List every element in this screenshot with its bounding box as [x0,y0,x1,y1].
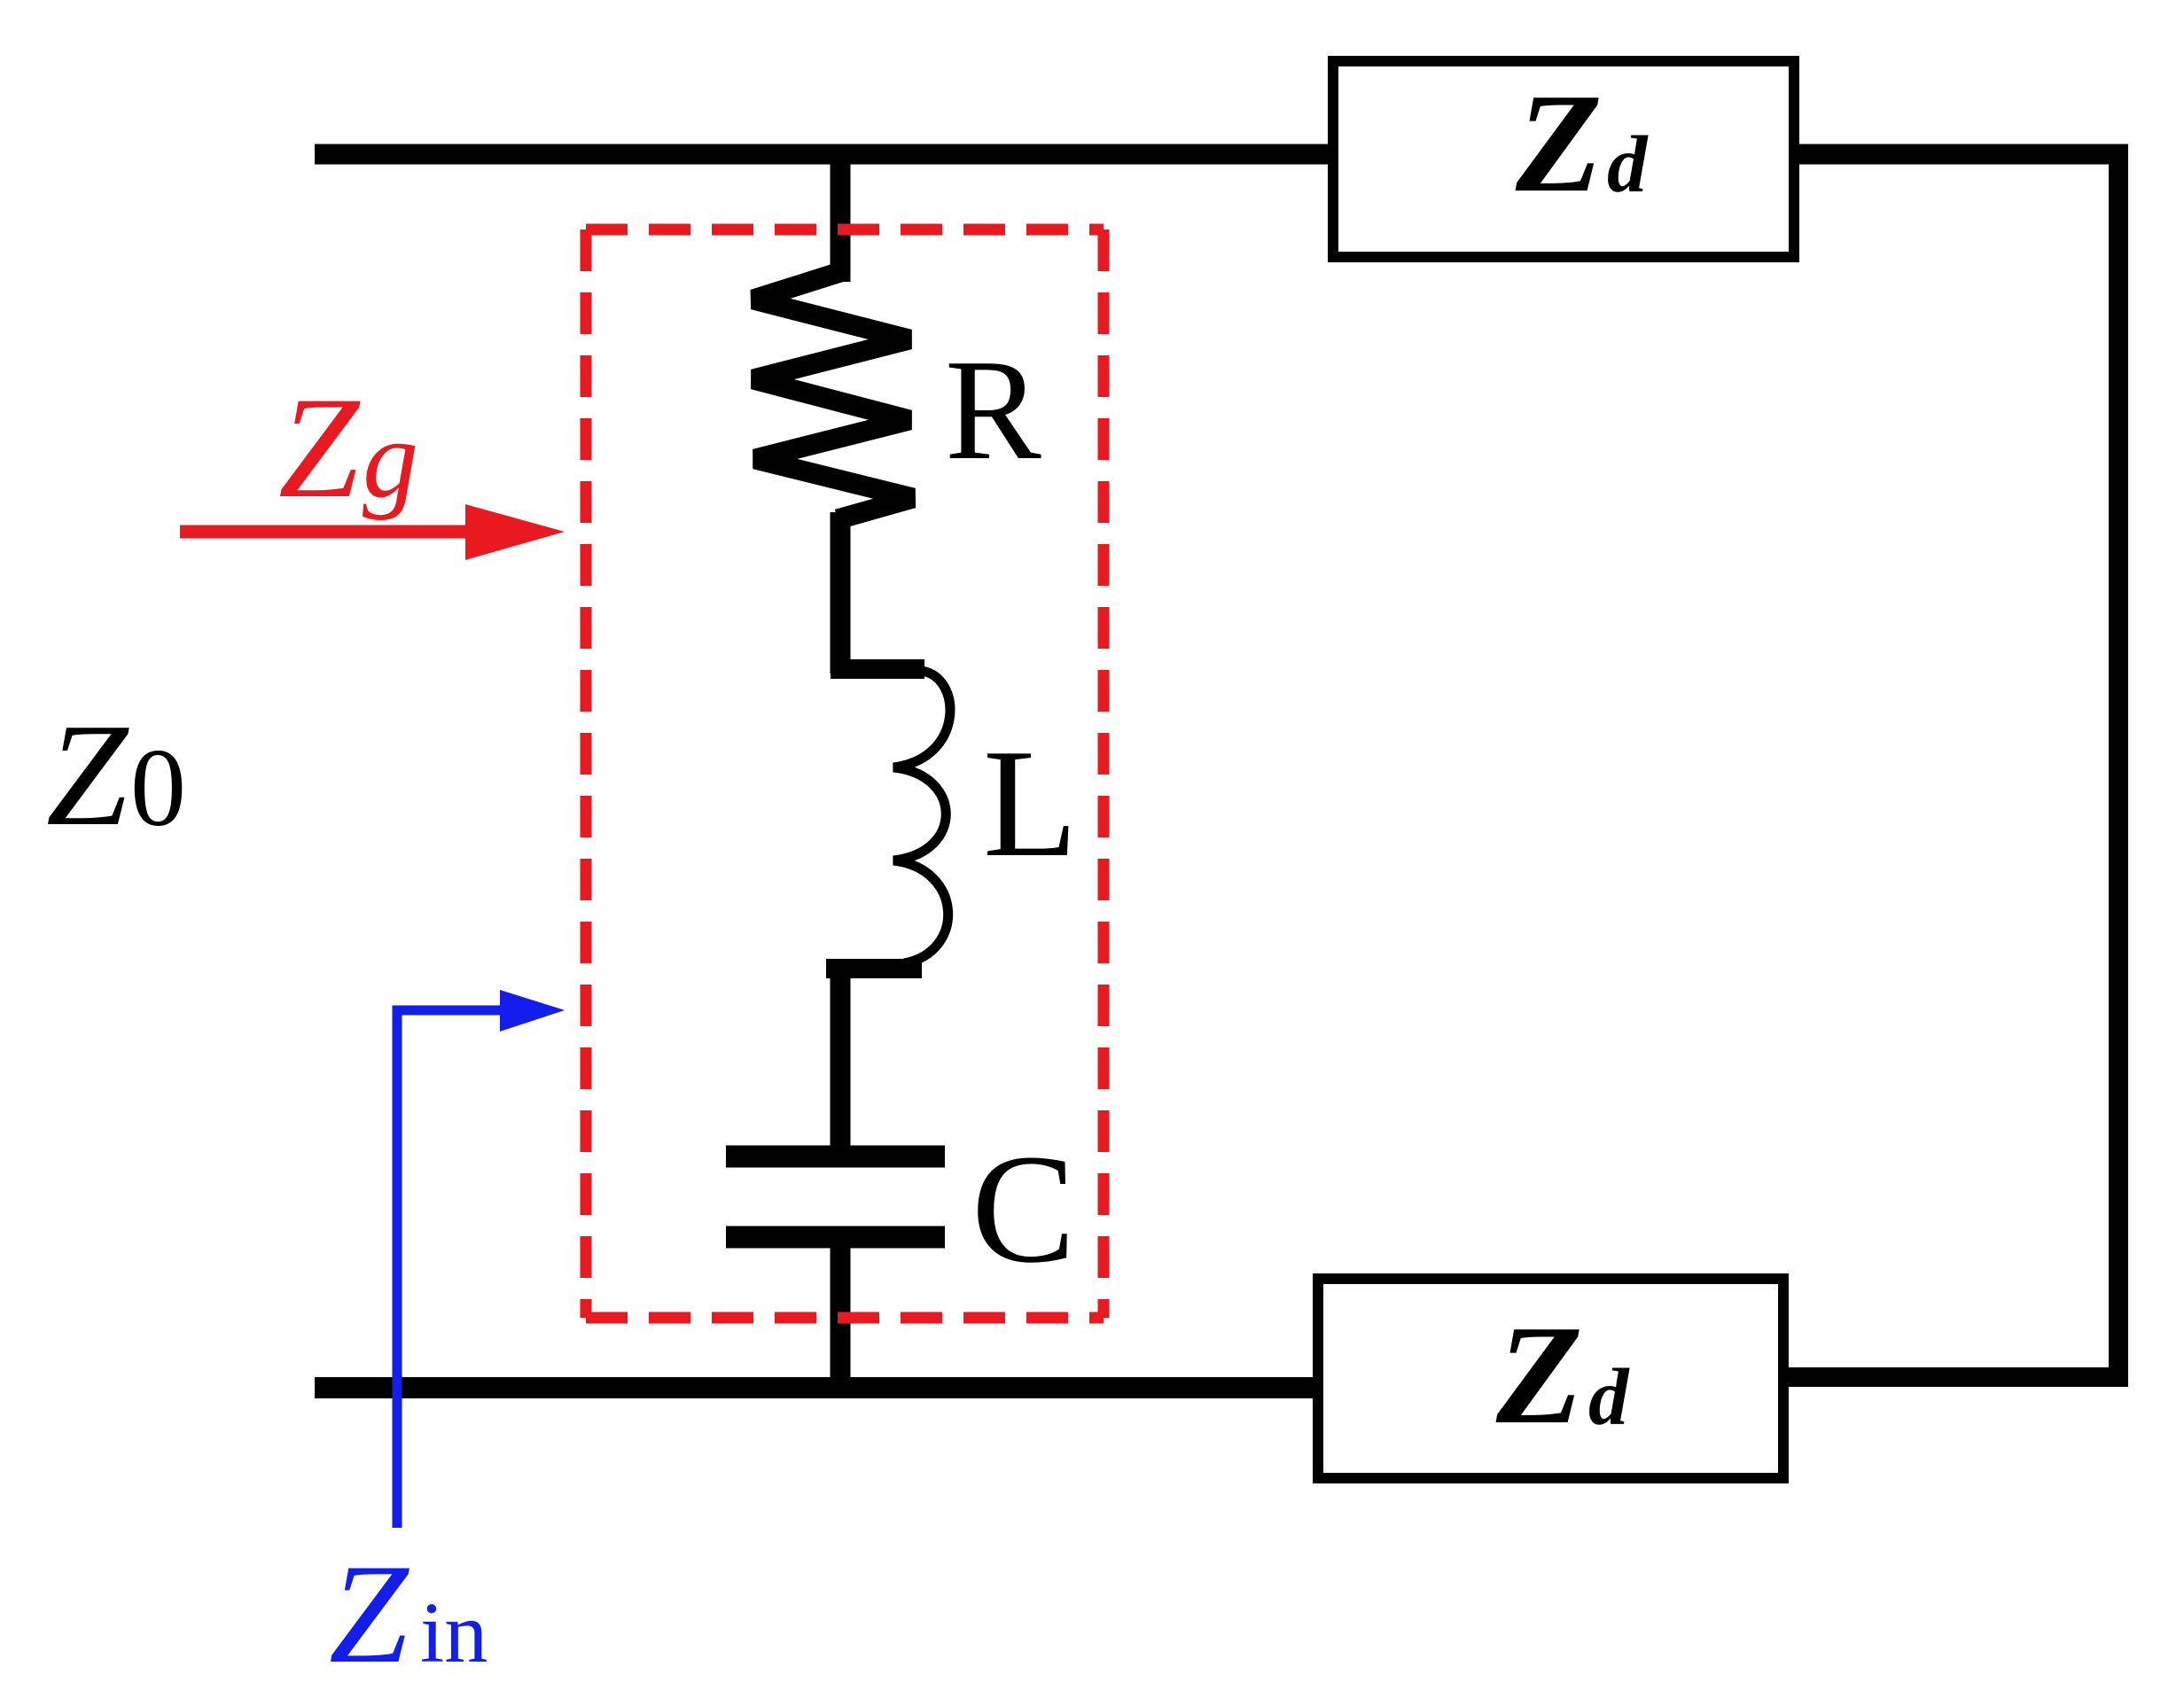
svg-text:Z: Z [46,693,129,856]
svg-text:Z: Z [1515,64,1603,222]
inductor L [826,669,950,969]
capacitor C bottom plate [726,1226,945,1249]
svg-text:0: 0 [130,727,186,850]
Zg arrow [180,504,565,560]
svg-text:R: R [945,331,1041,490]
Z0 label [46,693,186,856]
svg-text:in: in [420,1585,487,1681]
wire top horizontal left segment [315,144,1338,165]
resistor R zigzag [753,272,913,519]
svg-text:Z: Z [329,1535,409,1693]
svg-text:L: L [983,717,1078,889]
svg-text:Z: Z [278,368,361,528]
wire lead from capacitor to bottom wire [831,1237,851,1398]
Zg label [278,368,418,528]
svg-text:C: C [971,1123,1075,1296]
impedance box Zd bottom [1318,1279,1783,1478]
Zin label [329,1535,487,1693]
svg-text:d: d [1607,120,1649,209]
wire lead between resistor and inductor [831,512,851,673]
wire bottom left segment [315,1377,1318,1398]
svg-text:g: g [363,398,418,521]
impedance box Zd top [1333,61,1794,257]
svg-text:Z: Z [1495,1296,1583,1453]
node top junction lead into branch [831,146,851,282]
wire right vertical [2109,144,2128,1387]
dashed RLC resonator outline box [586,230,1104,1318]
wire lead between inductor and capacitor [831,969,851,1152]
svg-text:d: d [1588,1352,1630,1442]
wire top horizontal right segment [1789,144,2128,165]
Zin arrow [397,990,565,1528]
wire bottom right segment [1783,1367,2124,1387]
capacitor C top plate [726,1146,945,1168]
